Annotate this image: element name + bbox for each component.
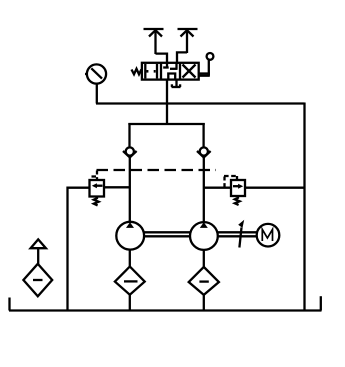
pump P2: [190, 222, 218, 250]
relief valve RV2 spring: [235, 196, 240, 205]
wire pump P1 suction: [129, 250, 131, 267]
pilot vent dashed line: [97, 169, 217, 171]
wire gauge stem: [96, 84, 98, 104]
relief valve RV1: [90, 180, 105, 197]
pressure gauge PG: [85, 64, 106, 83]
relief valve RV2: [231, 180, 245, 196]
wire manifold to left check valve: [128, 123, 130, 148]
check valve CV2: [197, 147, 211, 157]
wire gauge-to-tank horizontal: [96, 102, 305, 104]
directional valve DV body: [142, 63, 199, 80]
check valve CV1: [123, 147, 137, 157]
wire left arrow to valve port A: [156, 54, 168, 64]
filter F1: [115, 267, 145, 295]
wire RV1 outlet to tank drop: [68, 188, 90, 311]
valve left position flow lines: [145, 64, 157, 78]
valve divider 2: [179, 63, 181, 80]
filter F2: [189, 267, 219, 295]
valve divider 1: [160, 63, 162, 80]
exhaust arrow left: [144, 29, 164, 54]
variable displacement arrow: [238, 220, 244, 248]
wire RV2 outlet to tank drop: [245, 187, 305, 189]
valve centre position blocked ports: [163, 64, 177, 80]
relief valve RV1 pilot dashes: [92, 171, 98, 180]
wire P line valve to manifold: [166, 80, 168, 124]
valve spring: [132, 69, 142, 75]
wire right arrow to valve port B: [177, 52, 187, 64]
wire manifold header: [130, 124, 204, 125]
relief valve RV1 spring: [94, 197, 99, 206]
motor M1: [257, 224, 280, 247]
relief valve RV2 pilot dashes: [224, 176, 237, 188]
tank line: [9, 296, 322, 310]
breather B1: [23, 239, 52, 296]
wire RV2 inlet: [204, 187, 231, 189]
wire left pump branch: [129, 157, 131, 223]
wire filter F2 to tank: [203, 295, 205, 311]
valve right position crossed flow: [183, 65, 196, 78]
shaft pump2 to motor: [218, 232, 257, 236]
wire filter F1 to tank: [129, 295, 131, 311]
exhaust arrow right: [178, 29, 198, 53]
shaft pump1 to pump2: [144, 232, 190, 236]
wire right pump branch: [203, 157, 205, 223]
wire RV1 inlet: [104, 186, 130, 188]
wire manifold to right check valve: [202, 123, 204, 148]
pump P1: [116, 222, 144, 250]
valve lever with knob: [200, 53, 214, 76]
wire pump P2 suction: [203, 250, 205, 268]
tank symbol at valve T port: [172, 80, 181, 87]
wire right tank drop: [303, 103, 305, 311]
